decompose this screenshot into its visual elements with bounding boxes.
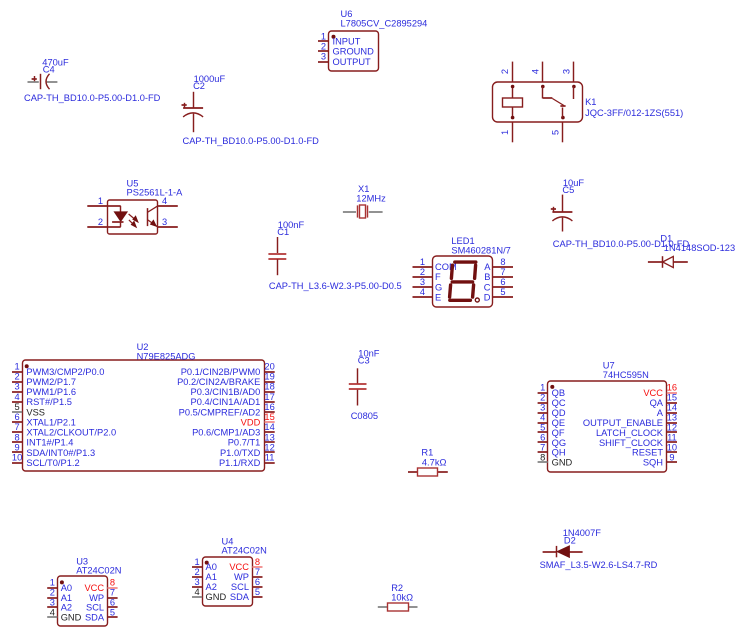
svg-text:17: 17	[264, 392, 274, 402]
svg-text:P0.1/CIN2B/PWM0: P0.1/CIN2B/PWM0	[181, 367, 261, 377]
svg-text:XTAL1/P2.1: XTAL1/P2.1	[26, 417, 75, 427]
svg-text:A1: A1	[206, 572, 217, 582]
svg-text:PWM3/CMP2/P0.0: PWM3/CMP2/P0.0	[26, 367, 104, 377]
svg-text:8: 8	[540, 452, 545, 462]
svg-text:QB: QB	[552, 388, 565, 398]
svg-text:D: D	[484, 293, 491, 303]
svg-text:3: 3	[195, 577, 200, 587]
svg-text:OUTPUT_ENABLE: OUTPUT_ENABLE	[583, 418, 663, 428]
svg-text:12MHz: 12MHz	[356, 193, 386, 203]
svg-text:1: 1	[321, 31, 326, 41]
svg-text:VCC: VCC	[229, 562, 249, 572]
svg-text:9: 9	[15, 443, 20, 453]
svg-text:2: 2	[15, 372, 20, 382]
svg-text:GROUND: GROUND	[333, 47, 375, 57]
svg-text:INT1#/P1.4: INT1#/P1.4	[26, 438, 73, 448]
svg-text:C2: C2	[193, 81, 205, 91]
svg-text:WP: WP	[89, 593, 104, 603]
svg-text:12: 12	[264, 443, 274, 453]
svg-text:C5: C5	[562, 185, 574, 195]
svg-text:R2: R2	[391, 583, 403, 593]
svg-text:5: 5	[551, 130, 561, 135]
svg-text:CAP-TH_L3.6-W2.3-P5.00-D0.5: CAP-TH_L3.6-W2.3-P5.00-D0.5	[269, 281, 402, 291]
svg-text:GND: GND	[61, 613, 82, 623]
svg-text:SDA: SDA	[230, 592, 250, 602]
svg-text:2: 2	[195, 567, 200, 577]
svg-text:G: G	[435, 282, 442, 292]
svg-text:1: 1	[98, 196, 103, 206]
svg-text:XTAL2/CLKOUT/P2.0: XTAL2/CLKOUT/P2.0	[26, 428, 116, 438]
svg-text:3: 3	[162, 217, 167, 227]
svg-text:5: 5	[500, 287, 505, 297]
svg-text:7: 7	[540, 442, 545, 452]
svg-text:18: 18	[264, 382, 274, 392]
svg-text:R1: R1	[421, 448, 433, 458]
svg-text:QH: QH	[552, 448, 566, 458]
svg-text:F: F	[435, 272, 441, 282]
svg-text:74HC595N: 74HC595N	[603, 370, 649, 380]
svg-text:P1.1/RXD: P1.1/RXD	[219, 458, 261, 468]
svg-text:OUTPUT: OUTPUT	[333, 57, 372, 67]
svg-text:QC: QC	[552, 398, 566, 408]
svg-text:L7805CV_C2895294: L7805CV_C2895294	[341, 19, 428, 29]
svg-text:A2: A2	[61, 603, 72, 613]
svg-text:3: 3	[420, 277, 425, 287]
svg-text:GND: GND	[552, 458, 573, 468]
svg-text:P0.2/CIN2A/BRAKE: P0.2/CIN2A/BRAKE	[177, 377, 260, 387]
svg-text:9: 9	[669, 452, 674, 462]
svg-text:P0.7/T1: P0.7/T1	[228, 438, 261, 448]
svg-text:QE: QE	[552, 418, 565, 428]
svg-text:P0.5/CMPREF/AD2: P0.5/CMPREF/AD2	[179, 407, 261, 417]
svg-text:D2: D2	[564, 536, 576, 546]
svg-text:A1: A1	[61, 593, 72, 603]
svg-text:K1: K1	[585, 97, 596, 107]
svg-text:8: 8	[500, 257, 505, 267]
svg-text:3: 3	[50, 597, 55, 607]
svg-text:QD: QD	[552, 408, 566, 418]
svg-text:6: 6	[540, 432, 545, 442]
svg-text:B: B	[484, 272, 490, 282]
svg-text:C4: C4	[43, 64, 55, 74]
svg-text:8: 8	[255, 557, 260, 567]
svg-text:15: 15	[264, 412, 274, 422]
svg-text:7: 7	[500, 267, 505, 277]
svg-text:4: 4	[50, 607, 55, 617]
svg-text:4: 4	[540, 413, 545, 423]
svg-text:QF: QF	[552, 428, 565, 438]
svg-text:E: E	[435, 293, 441, 303]
svg-text:AT24C02N: AT24C02N	[222, 546, 267, 556]
svg-text:RST#/P1.5: RST#/P1.5	[26, 397, 71, 407]
svg-text:VSS: VSS	[26, 407, 45, 417]
svg-text:10kΩ: 10kΩ	[391, 593, 413, 603]
svg-text:14: 14	[264, 422, 274, 432]
svg-text:2: 2	[98, 217, 103, 227]
svg-text:6: 6	[500, 277, 505, 287]
svg-text:13: 13	[264, 432, 274, 442]
svg-text:6: 6	[15, 412, 20, 422]
svg-text:7: 7	[15, 422, 20, 432]
svg-text:20: 20	[264, 362, 274, 372]
svg-text:QG: QG	[552, 438, 566, 448]
svg-text:4: 4	[420, 287, 425, 297]
svg-text:8: 8	[110, 578, 115, 588]
svg-text:SDA/INT0#/P1.3: SDA/INT0#/P1.3	[26, 448, 95, 458]
svg-text:5: 5	[540, 423, 545, 433]
svg-text:PWM1/P1.6: PWM1/P1.6	[26, 387, 76, 397]
svg-text:5: 5	[15, 402, 20, 412]
svg-text:PS2561L-1-A: PS2561L-1-A	[127, 188, 184, 198]
svg-text:1: 1	[50, 578, 55, 588]
svg-text:2: 2	[420, 267, 425, 277]
svg-text:7: 7	[110, 588, 115, 598]
svg-text:11: 11	[265, 453, 275, 463]
svg-text:3: 3	[15, 382, 20, 392]
svg-text:INPUT: INPUT	[333, 37, 361, 47]
svg-text:A0: A0	[206, 562, 217, 572]
svg-text:3: 3	[562, 69, 572, 74]
svg-text:1: 1	[420, 257, 425, 267]
svg-text:15: 15	[667, 393, 677, 403]
svg-text:VCC: VCC	[84, 583, 104, 593]
svg-text:A: A	[657, 408, 664, 418]
svg-text:SCL: SCL	[86, 603, 104, 613]
svg-text:VDD: VDD	[241, 417, 261, 427]
svg-text:C1: C1	[277, 227, 289, 237]
svg-text:C3: C3	[358, 356, 370, 366]
svg-text:SHIFT_CLOCK: SHIFT_CLOCK	[599, 438, 664, 448]
svg-text:AT24C02N: AT24C02N	[76, 566, 121, 576]
svg-text:P0.6/CMP1/AD3: P0.6/CMP1/AD3	[192, 428, 260, 438]
svg-text:3: 3	[321, 52, 326, 62]
svg-text:16: 16	[667, 383, 677, 393]
svg-text:5: 5	[255, 587, 260, 597]
svg-text:SQH: SQH	[643, 458, 663, 468]
svg-text:1N4148SOD-123: 1N4148SOD-123	[664, 243, 735, 253]
svg-text:14: 14	[667, 403, 677, 413]
svg-text:JQC-3FF/012-1ZS(551): JQC-3FF/012-1ZS(551)	[585, 108, 683, 118]
svg-text:10: 10	[667, 442, 677, 452]
svg-text:C0805: C0805	[351, 411, 378, 421]
svg-text:1: 1	[195, 557, 200, 567]
svg-text:5: 5	[110, 607, 115, 617]
svg-text:VCC: VCC	[643, 388, 663, 398]
svg-text:12: 12	[667, 423, 677, 433]
svg-text:2: 2	[321, 41, 326, 51]
svg-text:13: 13	[667, 413, 677, 423]
svg-text:SDA: SDA	[85, 613, 105, 623]
svg-text:P0.4/CIN1A/AD1: P0.4/CIN1A/AD1	[191, 397, 261, 407]
svg-text:LATCH_CLOCK: LATCH_CLOCK	[596, 428, 664, 438]
svg-text:SCL: SCL	[231, 582, 249, 592]
svg-text:D1: D1	[660, 234, 672, 244]
svg-text:SCL/T0/P1.2: SCL/T0/P1.2	[26, 458, 79, 468]
svg-text:WP: WP	[234, 572, 249, 582]
svg-text:1: 1	[540, 383, 545, 393]
svg-text:2: 2	[540, 393, 545, 403]
svg-text:QA: QA	[650, 398, 664, 408]
svg-text:C: C	[484, 282, 491, 292]
svg-text:1: 1	[15, 362, 20, 372]
svg-text:8: 8	[15, 432, 20, 442]
svg-text:GND: GND	[206, 592, 227, 602]
svg-text:4.7kΩ: 4.7kΩ	[422, 458, 447, 468]
svg-text:CAP-TH_BD10.0-P5.00-D1.0-FD: CAP-TH_BD10.0-P5.00-D1.0-FD	[24, 93, 161, 103]
svg-text:A2: A2	[206, 582, 217, 592]
svg-text:10: 10	[12, 453, 22, 463]
svg-text:1: 1	[500, 130, 510, 135]
svg-text:4: 4	[530, 69, 540, 74]
svg-text:4: 4	[195, 587, 200, 597]
svg-text:RESET: RESET	[632, 448, 663, 458]
svg-text:6: 6	[255, 577, 260, 587]
svg-text:SMAF_L3.5-W2.6-LS4.7-RD: SMAF_L3.5-W2.6-LS4.7-RD	[540, 560, 658, 570]
svg-text:7: 7	[255, 567, 260, 577]
svg-text:6: 6	[110, 597, 115, 607]
svg-text:CAP-TH_BD10.0-P5.00-D1.0-FD: CAP-TH_BD10.0-P5.00-D1.0-FD	[183, 136, 320, 146]
svg-text:16: 16	[264, 402, 274, 412]
svg-text:P0.3/CIN1B/AD0: P0.3/CIN1B/AD0	[191, 387, 261, 397]
svg-text:3: 3	[540, 403, 545, 413]
svg-text:SM460281N/7: SM460281N/7	[451, 245, 510, 255]
svg-text:2: 2	[50, 588, 55, 598]
svg-text:N79E825ADG: N79E825ADG	[137, 351, 196, 361]
svg-text:2: 2	[500, 69, 510, 74]
svg-text:A0: A0	[61, 583, 72, 593]
svg-text:11: 11	[667, 432, 677, 442]
svg-text:4: 4	[15, 392, 20, 402]
svg-text:19: 19	[264, 372, 274, 382]
svg-text:PWM2/P1.7: PWM2/P1.7	[26, 377, 76, 387]
svg-text:A: A	[484, 262, 491, 272]
svg-text:P1.0/TXD: P1.0/TXD	[220, 448, 261, 458]
